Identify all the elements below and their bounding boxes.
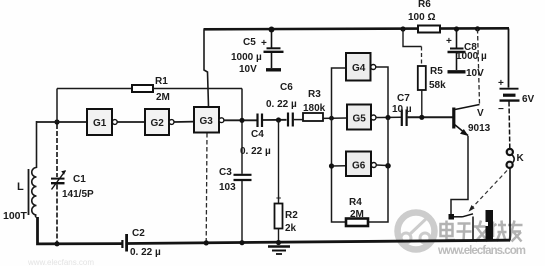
node: C1 to ground rail — [54, 241, 59, 246]
svg-text:+: + — [261, 38, 267, 49]
svg-text:100 Ω: 100 Ω — [408, 12, 435, 23]
resistor R6 — [418, 26, 440, 33]
svg-text:C3: C3 — [219, 167, 232, 178]
svg-text:0. 22 µ: 0. 22 µ — [130, 247, 161, 258]
top VCC rail — [204, 28, 510, 29]
capacitor C2 — [122, 234, 126, 252]
子 — [458, 222, 471, 225]
svg-text:C7: C7 — [397, 93, 410, 104]
switch K — [507, 149, 515, 241]
emitter arrow — [460, 129, 469, 136]
wire G5 out to C7 — [376, 116, 401, 118]
gate G1 — [87, 109, 117, 135]
node C5 top — [269, 27, 275, 33]
gate G6 — [346, 152, 376, 177]
node bottom rail G3 ground — [204, 240, 209, 245]
svg-text:R4: R4 — [349, 197, 362, 208]
wire output bus vertical — [368, 118, 388, 223]
inductor core bar — [28, 169, 30, 215]
emitter lead — [455, 125, 469, 136]
svg-text:K: K — [517, 153, 525, 164]
resistor R4 — [346, 219, 368, 227]
svg-text:C1: C1 — [73, 174, 86, 185]
capacitor C3 — [234, 120, 252, 243]
svg-text:R2: R2 — [285, 210, 298, 221]
svg-text:2M: 2M — [350, 209, 364, 220]
svg-text:G6: G6 — [352, 161, 366, 172]
gate G5 — [347, 105, 376, 130]
svg-text:103: 103 — [219, 182, 236, 193]
svg-text:+: + — [276, 193, 281, 203]
reed contact — [449, 214, 474, 241]
dashed link K to reed — [470, 171, 507, 211]
battery 6V — [500, 29, 520, 149]
inductor L winding — [32, 168, 37, 218]
wire: VCC drop to G3 top — [204, 29, 209, 106]
svg-text:180k: 180k — [303, 103, 326, 114]
node R2 ground — [276, 240, 281, 245]
capacitor C5 — [264, 30, 284, 70]
wire C7 to base — [408, 116, 453, 118]
transistor V 9013 — [454, 26, 480, 136]
wire G4 out — [376, 67, 388, 118]
svg-text:10V: 10V — [239, 64, 257, 75]
wire: tank top corner down to coil — [36, 121, 38, 168]
svg-text:−: − — [498, 104, 504, 115]
bottom ground rail right of C2 — [127, 240, 510, 243]
node R5 to base wire — [419, 115, 424, 120]
烧 — [492, 222, 495, 238]
svg-text:C2: C2 — [132, 228, 145, 239]
node A to G6 input — [329, 163, 334, 168]
svg-text:0. 22 µ: 0. 22 µ — [266, 99, 297, 110]
svg-text:2M: 2M — [156, 92, 170, 103]
capacitor C1 (variable) — [51, 124, 66, 244]
capacitor C8 — [448, 29, 466, 72]
node collector rail — [475, 26, 480, 31]
svg-text:R5: R5 — [430, 66, 443, 77]
svg-text:6V: 6V — [522, 94, 535, 105]
发 — [474, 225, 489, 228]
wire C4 to C6 — [263, 119, 287, 121]
bottom ground rail left of C2 — [38, 217, 123, 244]
magnet notch — [486, 222, 489, 226]
svg-text:100T: 100T — [3, 210, 28, 222]
wire: dashed ground lead below G3 — [205, 133, 208, 243]
wire G1-G2 — [118, 121, 146, 123]
svg-text:G1: G1 — [93, 118, 107, 129]
svg-text:C5: C5 — [243, 37, 256, 48]
wire collector drop — [478, 29, 480, 104]
svg-text:9013: 9013 — [468, 123, 491, 134]
svg-text:R1: R1 — [155, 76, 168, 87]
node B junction G5 out — [385, 115, 390, 120]
resistor R5 — [403, 29, 426, 117]
wire G3 out to C4 — [224, 119, 257, 121]
svg-text:2k: 2k — [285, 223, 297, 234]
node C8 top — [454, 26, 459, 31]
svg-text:R3: R3 — [308, 89, 321, 100]
电 — [441, 224, 453, 236]
友 — [508, 224, 523, 227]
svg-text:www.elecfans.com: www.elecfans.com — [437, 245, 526, 257]
wire C6 to R3 — [294, 119, 303, 121]
capacitor C7 — [402, 110, 407, 127]
resistor R2 — [275, 120, 283, 243]
svg-text:C6: C6 — [280, 82, 293, 93]
svg-text:1000 µ: 1000 µ — [456, 51, 487, 62]
resistor R3 — [303, 113, 347, 121]
gate G2 — [145, 109, 174, 135]
magnet bar — [486, 210, 494, 240]
watermark logo circle — [398, 213, 435, 250]
node B to G6 out — [385, 163, 391, 169]
svg-text:L: L — [17, 181, 24, 193]
C1 arrow head — [61, 170, 66, 175]
svg-text:G3: G3 — [200, 116, 214, 127]
wire G6 out — [376, 164, 388, 167]
svg-text:58k: 58k — [429, 80, 446, 91]
svg-text:0. 22 µ: 0. 22 µ — [240, 146, 271, 157]
svg-text:G5: G5 — [353, 114, 367, 125]
resistor R1 — [57, 85, 242, 122]
svg-text:C4: C4 — [251, 129, 264, 140]
wire input bus vertical — [332, 68, 347, 222]
svg-text:1000 µ: 1000 µ — [231, 52, 262, 63]
node: junction L/C1 input line — [54, 119, 59, 124]
node R6 left — [400, 26, 405, 31]
svg-text:R6: R6 — [418, 0, 431, 10]
link arrow head — [469, 205, 475, 212]
node G3 output / R1 / C3 — [239, 118, 244, 123]
node A input bus junction — [329, 116, 334, 121]
capacitor C4 — [258, 114, 263, 128]
svg-text:+: + — [446, 36, 452, 47]
wire G6 input — [332, 165, 347, 167]
wire: G1 input line — [37, 121, 88, 123]
watermark text 电子发烧友 (drawn as glyph-like strokes) — [441, 221, 523, 242]
svg-text:+: + — [498, 78, 504, 89]
svg-text:G4: G4 — [352, 63, 366, 74]
node R2 tap — [276, 117, 281, 122]
svg-text:10V: 10V — [466, 68, 484, 79]
base bar — [452, 108, 455, 129]
svg-text:141/5P: 141/5P — [62, 189, 94, 200]
capacitor C6 — [288, 113, 293, 127]
gate G4 — [346, 53, 376, 81]
ground symbol — [268, 247, 290, 255]
gate G3 — [194, 107, 224, 133]
wire G2-G3 — [174, 121, 194, 123]
svg-text:10 µ: 10 µ — [392, 104, 412, 115]
svg-text:www.elecfans.com: www.elecfans.com — [27, 258, 94, 266]
svg-text:V: V — [477, 108, 484, 119]
collector lead — [455, 105, 480, 110]
svg-text:G2: G2 — [151, 118, 165, 129]
wire emitter to reed contact — [451, 136, 468, 214]
node C3 ground — [239, 240, 244, 245]
